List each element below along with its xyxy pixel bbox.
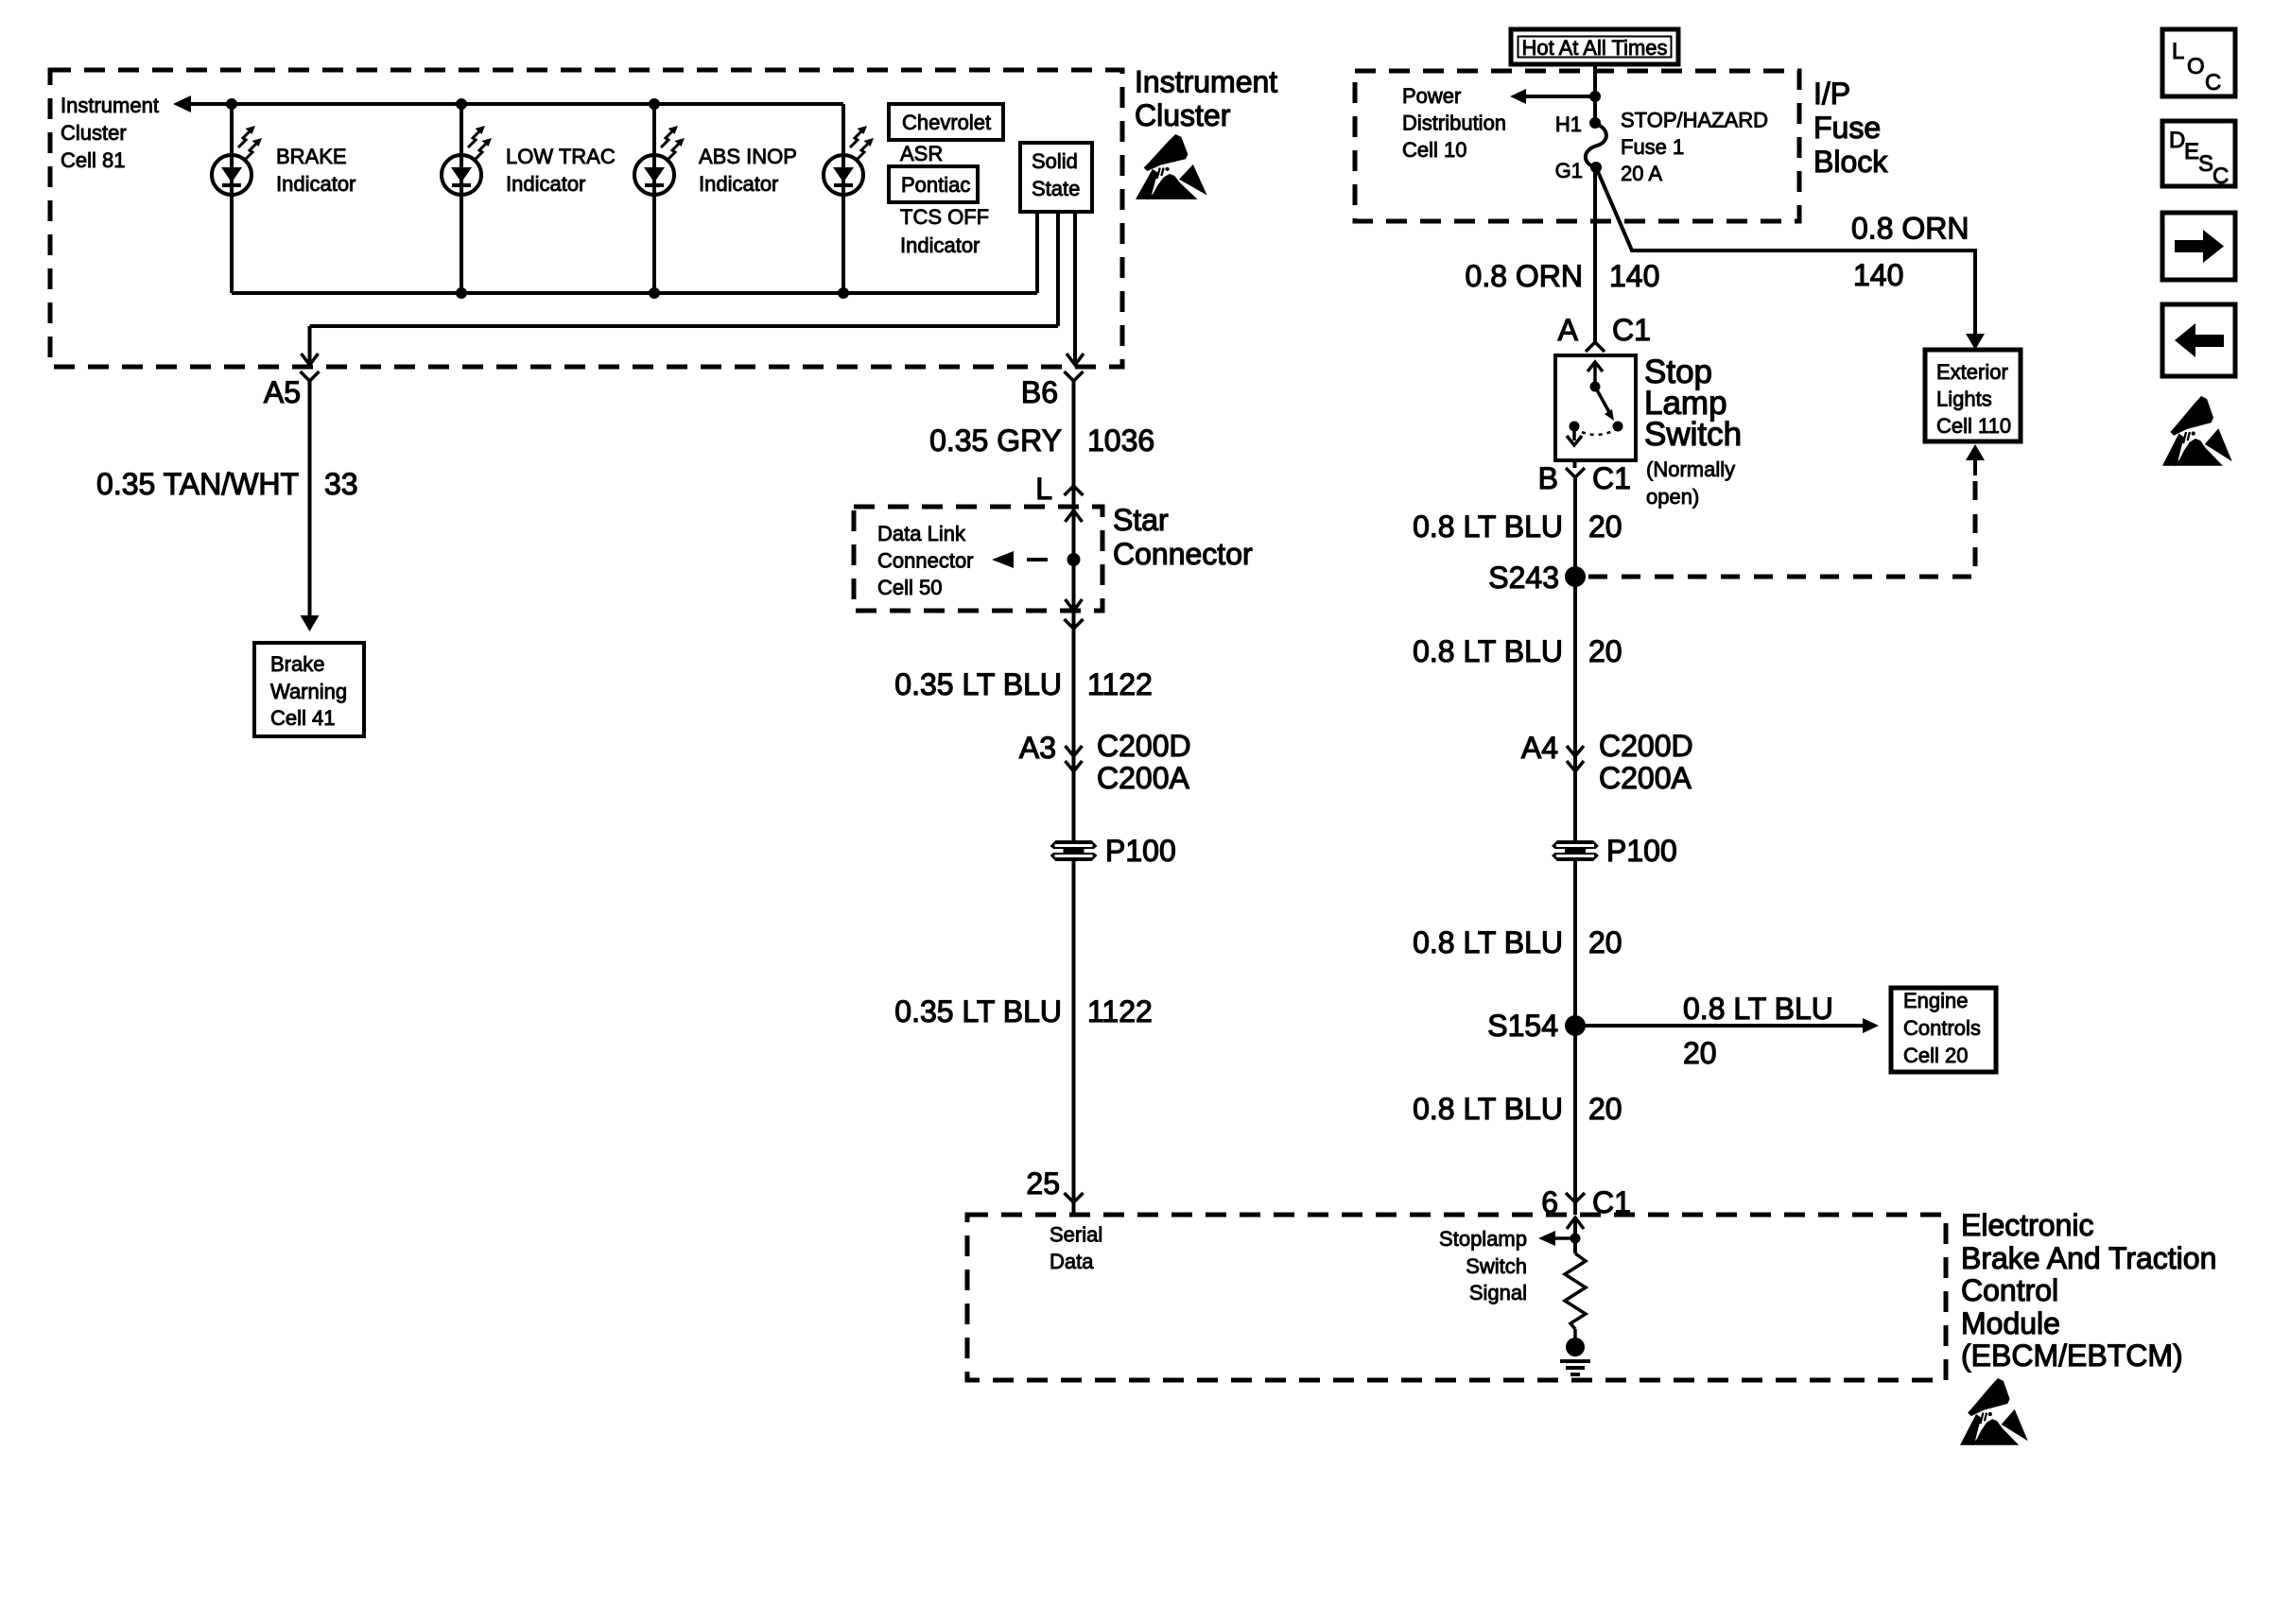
label Electronic Brake And Traction Control Module (EBCM/EBTCM) [1961,1208,2216,1373]
label 0.8 LT BLU 20 (2) [1413,634,1622,668]
svg-text:Module: Module [1961,1306,2060,1340]
terminal G1 [1590,162,1602,173]
dashed wire S243 to Exterior Lights [1588,480,1975,577]
wire BRAKE LED drop [230,104,234,293]
label 0.8 LT BLU 20 (1) [1413,510,1622,544]
svg-text:Switch: Switch [1644,416,1742,453]
svg-text:E: E [2184,139,2199,164]
svg-text:20: 20 [1588,510,1622,544]
data link connector dashed box [854,507,1102,611]
label 0.35 GRY 1036 [929,423,1154,458]
terminal H1 [1589,117,1601,129]
svg-text:Indicator: Indicator [900,233,980,257]
svg-text:Serial: Serial [1050,1223,1102,1247]
label Star Connector [1113,503,1253,571]
svg-text:C200A: C200A [1097,761,1190,795]
svg-text:0.8 LT BLU: 0.8 LT BLU [1413,925,1563,959]
label 0.8 ORN 140 (right branch) [1851,212,1969,293]
svg-text:Control: Control [1961,1273,2058,1307]
grommet P100 (right) [1552,840,1599,861]
connector chevron at A [1586,342,1605,352]
svg-text:B6: B6 [1021,375,1058,409]
svg-text:B: B [1538,461,1558,495]
junction dot power feed branch [1589,91,1601,102]
arrow into Engine Controls box [1863,1018,1879,1033]
label 0.35 LT BLU 1122 (upper) [894,667,1153,701]
connector A4 C200D/C200A (double chevron) [1567,746,1584,756]
svg-text:20: 20 [1683,1036,1717,1070]
svg-text:C1: C1 [1592,461,1631,495]
wire: top feed bus with left arrow [173,95,191,112]
arrow into Exterior Lights box [1966,334,1985,350]
label 0.35 LT BLU 1122 (lower) [894,994,1153,1028]
svg-text:Indicator: Indicator [506,172,585,196]
wire resistor to ground [1573,1329,1577,1339]
svg-text:O: O [2187,54,2205,79]
resistor (pull-down) [1565,1253,1586,1329]
svg-text:1122: 1122 [1087,667,1153,701]
wire to Stoplamp Switch Signal arrow [1545,1236,1575,1240]
svg-text:20: 20 [1588,634,1622,668]
connector B (Y) [1566,468,1585,477]
wire: solid state pin 1 to bus1 [1035,212,1039,293]
instrument cluster dashed box [50,70,1122,367]
svg-text:D: D [2169,128,2185,153]
label BRAKE Indicator [276,145,356,196]
switch contact dot right [1613,422,1623,432]
svg-text:P100: P100 [1105,834,1176,868]
svg-text:C1: C1 [1612,313,1651,347]
switch arrow up to pin A [1588,362,1603,371]
svg-text:ASR: ASR [900,142,943,165]
svg-text:Indicator: Indicator [276,172,356,196]
svg-text:S: S [2198,151,2213,177]
connector chevron at L [1065,486,1084,495]
icon DESC box [2162,121,2235,186]
svg-text:Block: Block [1813,145,1888,179]
junction dot stoplamp signal node [1570,1234,1581,1244]
svg-text:Lights: Lights [1936,388,1992,411]
svg-text:Chevrolet: Chevrolet [902,111,991,134]
svg-text:25: 25 [1026,1166,1060,1201]
svg-text:Cell 110: Cell 110 [1936,414,2011,438]
svg-text:Brake: Brake [270,652,324,676]
svg-text:Instrument: Instrument [1135,65,1277,99]
wire to Power Distribution arrow [1524,95,1595,98]
arrow down at B6 box edge [1067,354,1084,365]
svg-text:0.8 ORN: 0.8 ORN [1466,259,1583,293]
svg-text:20: 20 [1588,925,1622,959]
wire B6 down to EBCM [1072,381,1076,1215]
svg-text:G1: G1 [1555,159,1583,182]
connector at 6 (Y) [1566,1193,1585,1202]
svg-text:A: A [1558,313,1579,347]
svg-text:Brake And Traction: Brake And Traction [1961,1241,2216,1275]
text Power Distribution Cell 10 [1402,84,1506,162]
wire from Hot At All Times down [1593,64,1597,125]
svg-text:Cluster: Cluster [1135,98,1231,132]
svg-text:Electronic: Electronic [1961,1208,2094,1242]
box Solid State [1020,143,1092,212]
node dot in DLC box [1067,553,1081,566]
svg-text:0.8 LT BLU: 0.8 LT BLU [1413,510,1563,544]
wire: solid state pin 3 to B6 [1073,212,1077,363]
junction dot top bus at ABS INOP LED [649,98,660,110]
svg-text:C200A: C200A [1599,761,1692,795]
svg-text:Pontiac: Pontiac [901,173,970,197]
svg-text:Distribution: Distribution [1402,112,1506,135]
svg-text:33: 33 [324,467,358,501]
label I/P Fuse Block [1813,77,1888,179]
connector below DLC box (Y) [1065,619,1084,629]
svg-text:0.35 LT BLU: 0.35 LT BLU [894,994,1062,1028]
arrow up inside EBCM [1567,1218,1584,1229]
arrow to Stoplamp Switch Signal [1538,1231,1555,1246]
fuse STOP/HAZARD Fuse 1 [1586,124,1606,167]
wire G1 down to stop lamp switch [1593,167,1597,342]
icon LOC box [2162,29,2235,96]
box Brake Warning Cell 41 [254,643,364,736]
wire A5 down [308,381,312,615]
wire: solid state pin 2 to bus2 [1056,212,1060,326]
wire ABS INOP LED drop [652,104,656,293]
label Stop Lamp Switch [1644,354,1742,453]
switch blade with arrow [1595,387,1609,412]
svg-text:1122: 1122 [1087,994,1153,1028]
ESD symbol (EBCM) [1960,1378,2028,1445]
arrow down inside DLC box [1066,599,1083,611]
label 0.8 LT BLU 20 (branch) [1683,992,1833,1070]
svg-text:Power: Power [1402,84,1461,108]
svg-text:C200D: C200D [1097,729,1191,763]
svg-text:140: 140 [1609,259,1659,293]
svg-text:A5: A5 [264,375,301,409]
svg-text:20 A: 20 A [1621,162,1662,185]
svg-text:S154: S154 [1487,1009,1558,1043]
svg-text:A3: A3 [1019,731,1056,765]
svg-text:Switch: Switch [1466,1254,1527,1278]
wire S154 to Engine Controls [1575,1024,1865,1028]
ESD symbol (instrument cluster) [1136,134,1207,199]
svg-text:Fuse 1: Fuse 1 [1621,135,1684,159]
svg-text:0.8 LT BLU: 0.8 LT BLU [1683,992,1833,1026]
splice S243 [1565,566,1586,587]
label (Normally open) [1646,458,1735,509]
label 0.35 TAN/WHT 33 [96,467,358,501]
junction dot bus1 at LOW TRAC LED [456,287,467,299]
svg-text:0.8 LT BLU: 0.8 LT BLU [1413,1092,1563,1126]
svg-text:Fuse: Fuse [1813,111,1881,145]
arrow up inside DLC box [1066,510,1083,522]
LED TCS OFF indicator [824,126,874,195]
grommet P100 (left) [1050,840,1098,861]
svg-text:Indicator: Indicator [699,172,778,196]
box Stop Lamp Switch [1555,355,1636,460]
svg-text:0.35 GRY: 0.35 GRY [929,423,1062,458]
label 0.8 ORN 140 (main) [1466,259,1660,293]
ground [1566,1338,1585,1356]
svg-text:L: L [1035,472,1052,506]
junction dot bus1 at ABS INOP LED [649,287,660,299]
EBCM dashed box [967,1215,1946,1380]
svg-text:Warning: Warning [270,680,347,703]
svg-text:LOW TRAC: LOW TRAC [506,145,616,168]
svg-text:Exterior: Exterior [1936,360,2008,384]
svg-text:A4: A4 [1521,731,1558,765]
svg-text:TCS OFF: TCS OFF [900,205,989,229]
svg-text:Stoplamp: Stoplamp [1439,1227,1527,1251]
text STOP/HAZARD Fuse 1 20 A [1621,109,1768,186]
svg-text:S243: S243 [1488,561,1559,595]
svg-text:ABS INOP: ABS INOP [699,145,797,168]
wire TCS OFF LED drop [842,104,845,293]
text Serial Data [1050,1223,1102,1274]
connector A3 C200D/C200A (double chevron) [1066,746,1083,756]
arrow to Data Link Connector text [992,551,1014,568]
svg-text:Connector: Connector [1113,537,1253,571]
label 0.8 LT BLU 20 (3) [1413,925,1622,959]
svg-text:H1: H1 [1555,112,1582,136]
box Pontiac [889,166,978,202]
svg-text:I/P: I/P [1813,77,1850,111]
svg-text:L: L [2172,39,2184,64]
label TCS OFF Indicator [900,205,989,257]
svg-text:C: C [2212,164,2229,189]
connector B6 (Y) [1065,371,1084,381]
svg-text:Hot At All Times: Hot At All Times [1521,36,1667,60]
connector A5 (Y) [301,371,320,381]
svg-text:20: 20 [1588,1092,1622,1126]
dashed wire segment to Data Link Connector [1027,558,1048,561]
wire LOW TRAC LED drop [460,104,463,293]
icon left arrow box [2162,304,2235,376]
I/P fuse block dashed box [1355,71,1799,221]
svg-text:BRAKE: BRAKE [276,145,347,168]
junction dot top bus at BRAKE LED [226,98,237,110]
splice S154 [1565,1015,1586,1036]
wire: lower bus 2 (to A5) [310,324,1059,328]
arrow into Brake Warning [301,615,320,631]
svg-text:Data Link: Data Link [877,522,966,545]
switch travel dashed arc [1574,428,1618,435]
ESD symbol (sidebar) [2162,396,2232,466]
svg-text:Cluster: Cluster [61,121,127,145]
svg-text:140: 140 [1853,258,1903,292]
svg-text:0.8 ORN: 0.8 ORN [1851,212,1969,246]
text Stoplamp Switch Signal [1439,1227,1527,1304]
svg-text:Data: Data [1050,1250,1094,1273]
svg-text:State: State [1032,177,1080,200]
junction dot top bus at LOW TRAC LED [456,98,467,110]
text Data Link Connector Cell 50 [877,522,974,599]
svg-text:Star: Star [1113,503,1169,537]
box Exterior Lights Cell 110 [1925,350,2021,441]
svg-text:Cell 41: Cell 41 [270,706,335,730]
svg-text:open): open) [1646,485,1699,509]
box Engine Controls Cell 20 [1891,988,1996,1072]
wire switch to EBCM [1573,460,1577,468]
svg-text:0.35 TAN/WHT: 0.35 TAN/WHT [96,467,299,501]
wire branch to exterior lights [1596,167,1975,336]
svg-text:Cell 20: Cell 20 [1903,1044,1968,1067]
text Instrument Cluster Cell 81 [61,94,159,172]
svg-text:0.8 LT BLU: 0.8 LT BLU [1413,634,1563,668]
svg-text:C200D: C200D [1599,729,1693,763]
label LOW TRAC Indicator [506,145,616,196]
label ABS INOP Indicator [699,145,797,196]
svg-text:C: C [2205,70,2221,95]
label 0.8 LT BLU 20 (4) [1413,1092,1622,1126]
LED ABS INOP indicator [634,126,685,195]
svg-text:(Normally: (Normally [1646,458,1735,481]
icon right arrow box [2162,213,2235,280]
svg-text:Solid: Solid [1032,149,1078,173]
LED BRAKE indicator [212,126,262,195]
svg-text:0.35 LT BLU: 0.35 LT BLU [894,667,1062,701]
switch arrow down to pin B [1572,426,1576,441]
wire: A5 drop from bus2 [308,326,312,363]
svg-text:P100: P100 [1606,834,1677,868]
arrow up into Exterior Lights box [1966,444,1985,460]
box Chevrolet [889,104,1003,140]
connector at 25 (Y) [1065,1193,1084,1202]
svg-text:Engine: Engine [1903,989,1969,1012]
svg-text:Cell 50: Cell 50 [877,576,942,599]
LED LOW TRAC indicator [442,126,492,195]
svg-text:Cell 81: Cell 81 [61,148,125,172]
wire: lower bus 1 [232,291,1037,295]
svg-text:Signal: Signal [1469,1281,1527,1304]
svg-text:1036: 1036 [1087,423,1154,458]
box Hot At All Times [1511,29,1678,64]
svg-text:Controls: Controls [1903,1016,1981,1040]
switch contact dot left [1570,422,1580,432]
wire stub below Exterior Lights [1973,458,1977,475]
svg-text:(EBCM/EBTCM): (EBCM/EBTCM) [1961,1339,2183,1373]
svg-text:Connector: Connector [877,549,974,573]
svg-text:STOP/HAZARD: STOP/HAZARD [1621,109,1768,132]
label Instrument Cluster (outside right) [1135,65,1277,133]
junction dot bus1 at TCS OFF LED [838,287,849,299]
arrow down at A5 box edge [302,354,319,365]
svg-text:Instrument: Instrument [61,94,159,117]
arrow to Power Distribution [1510,89,1526,104]
svg-text:Cell 10: Cell 10 [1402,138,1466,162]
switch pivot dot [1590,382,1601,392]
